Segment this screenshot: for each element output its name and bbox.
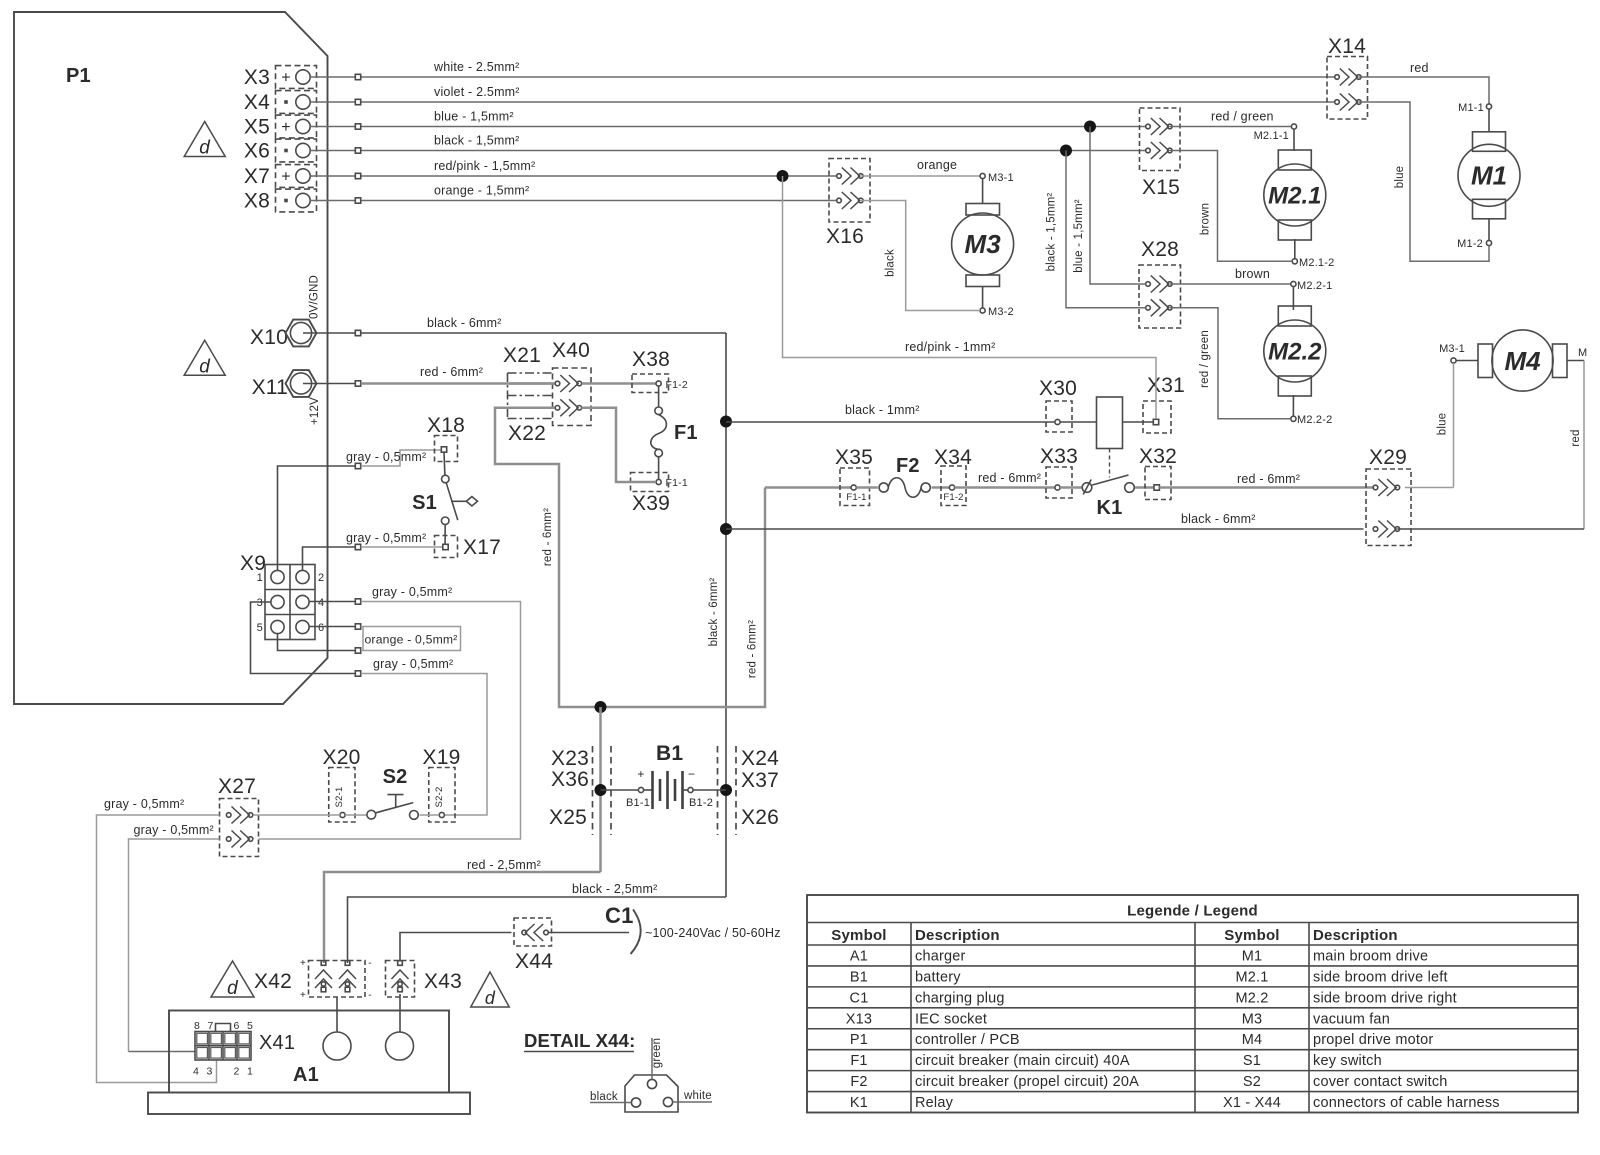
svg-text:black: black [590,1091,618,1103]
svg-text:red - 6mm²: red - 6mm² [747,620,759,678]
svg-text:X22: X22 [508,422,546,445]
svg-text:red: red [1410,61,1429,75]
svg-text:X26: X26 [741,806,779,829]
svg-text:red/pink - 1mm²: red/pink - 1mm² [905,340,996,354]
svg-text:M4: M4 [1242,1032,1263,1048]
svg-text:2: 2 [318,572,324,584]
svg-text:4: 4 [318,597,324,609]
svg-text:battery: battery [915,969,961,985]
svg-text:M4: M4 [1504,346,1541,376]
svg-text:M3-2: M3-2 [988,306,1014,318]
svg-text:B1: B1 [850,969,868,985]
svg-text:X13: X13 [846,1011,872,1027]
svg-text:2: 2 [233,1066,239,1078]
svg-text:brown: brown [1235,267,1270,281]
svg-text:M1-1: M1-1 [1458,102,1484,114]
svg-text:X39: X39 [632,492,670,515]
svg-text:black - 1mm²: black - 1mm² [845,403,920,417]
svg-text:X21: X21 [503,344,541,367]
svg-text:−: − [688,767,695,781]
svg-text:S1: S1 [412,492,437,514]
svg-text:F1-2: F1-2 [943,492,963,503]
svg-text:red - 6mm²: red - 6mm² [978,471,1041,485]
svg-text:X15: X15 [1142,176,1180,199]
svg-text:B1-1: B1-1 [626,797,650,809]
svg-text:gray - 0,5mm²: gray - 0,5mm² [372,585,452,599]
svg-text:red/pink - 1,5mm²: red/pink - 1,5mm² [434,159,535,173]
svg-text:X28: X28 [1141,238,1179,261]
svg-text:vacuum fan: vacuum fan [1313,1011,1390,1027]
svg-text:X37: X37 [741,769,779,792]
svg-text:M: M [1578,347,1587,359]
svg-text:F1-1: F1-1 [846,492,866,503]
svg-text:X6: X6 [244,140,270,163]
svg-text:M2.2-1: M2.2-1 [1297,280,1332,292]
svg-text:X23: X23 [551,747,589,770]
svg-text:X40: X40 [552,339,590,362]
svg-text:black - 6mm²: black - 6mm² [1181,512,1256,526]
svg-text:Description: Description [915,927,1000,944]
svg-text:white - 2.5mm²: white - 2.5mm² [433,60,519,74]
svg-text:5: 5 [247,1020,253,1032]
svg-text:X18: X18 [427,414,465,437]
svg-text:X31: X31 [1147,374,1185,397]
svg-text:DETAIL X44:: DETAIL X44: [524,1030,636,1051]
svg-text:M3: M3 [1242,1011,1263,1027]
svg-text:X41: X41 [259,1032,295,1054]
svg-text:charging plug: charging plug [915,990,1005,1006]
svg-text:Relay: Relay [915,1095,954,1111]
svg-text:Description: Description [1313,927,1398,944]
svg-text:X11: X11 [252,376,288,399]
svg-text:1: 1 [247,1066,253,1078]
svg-text:+: + [281,70,291,87]
svg-text:X33: X33 [1040,445,1078,468]
svg-text:F2: F2 [896,455,920,477]
svg-text:M2.1-1: M2.1-1 [1254,130,1289,142]
svg-text:3: 3 [257,597,263,609]
svg-text:charger: charger [915,948,966,964]
svg-text:A1: A1 [293,1064,319,1086]
svg-text:X20: X20 [323,746,361,769]
svg-text:black - 6mm²: black - 6mm² [708,578,720,647]
svg-text:+12V: +12V [309,397,321,425]
svg-text:M3-1: M3-1 [1439,343,1465,355]
svg-text:X7: X7 [244,165,270,188]
svg-text:F2: F2 [850,1074,867,1090]
svg-text:+: + [300,990,306,1001]
svg-text:6: 6 [233,1020,239,1032]
svg-text:red / green: red / green [1199,330,1211,388]
svg-text:+: + [300,958,306,969]
svg-text:3: 3 [206,1066,212,1078]
svg-text:X3: X3 [244,66,270,89]
svg-text:M3: M3 [965,229,1002,259]
svg-text:X8: X8 [244,190,270,213]
svg-text:circuit breaker (propel circui: circuit breaker (propel circuit) 20A [915,1074,1139,1090]
svg-text:S1: S1 [1243,1053,1261,1069]
svg-text:gray - 0,5mm²: gray - 0,5mm² [373,657,453,671]
svg-text:X44: X44 [515,950,553,973]
svg-text:X42: X42 [254,970,292,993]
svg-text:X43: X43 [424,970,462,993]
svg-text:M2.2: M2.2 [1235,990,1268,1006]
svg-text:Symbol: Symbol [831,927,886,944]
svg-text:black - 2,5mm²: black - 2,5mm² [572,882,657,896]
svg-text:circuit breaker (main circuit): circuit breaker (main circuit) 40A [915,1053,1130,1069]
svg-text:red - 2,5mm²: red - 2,5mm² [467,858,541,872]
svg-text:orange - 1,5mm²: orange - 1,5mm² [434,184,529,198]
svg-text:F1: F1 [850,1053,867,1069]
svg-text:X17: X17 [463,536,501,559]
svg-text:A1: A1 [850,948,868,964]
svg-text:B1-2: B1-2 [689,797,713,809]
svg-text:d: d [199,138,211,159]
svg-text:d: d [199,356,211,377]
svg-text:~100-240Vac / 50-60Hz: ~100-240Vac / 50-60Hz [645,926,781,940]
svg-text:Symbol: Symbol [1224,927,1279,944]
svg-text:B1: B1 [656,742,683,765]
svg-text:M2.1-2: M2.1-2 [1299,257,1334,269]
svg-text:red - 6mm²: red - 6mm² [542,508,554,566]
svg-text:cover contact switch: cover contact switch [1313,1074,1448,1090]
svg-text:white: white [683,1090,712,1102]
svg-text:blue: blue [1437,413,1449,436]
svg-text:side broom drive right: side broom drive right [1313,990,1457,1006]
svg-text:+: + [637,767,644,781]
svg-text:d: d [227,978,239,999]
svg-text:M1: M1 [1471,160,1507,190]
svg-text:red / green: red / green [1211,110,1274,124]
svg-text:X38: X38 [632,348,670,371]
svg-text:C1: C1 [605,903,634,928]
svg-text:P1: P1 [66,65,91,87]
svg-text:S2: S2 [383,766,408,788]
svg-text:P1: P1 [850,1032,868,1048]
svg-text:blue - 1,5mm²: blue - 1,5mm² [1073,199,1085,273]
svg-text:IEC socket: IEC socket [915,1011,987,1027]
svg-text:X1 - X44: X1 - X44 [1223,1095,1281,1111]
svg-text:M1-2: M1-2 [1457,238,1483,250]
svg-text:+: + [281,119,291,136]
svg-text:violet - 2.5mm²: violet - 2.5mm² [434,85,520,99]
svg-text:8: 8 [194,1020,200,1032]
svg-text:X36: X36 [551,768,589,791]
svg-text:X10: X10 [250,326,288,349]
svg-text:blue - 1,5mm²: blue - 1,5mm² [434,110,514,124]
svg-text:X5: X5 [244,116,270,139]
svg-text:d: d [485,988,496,1008]
svg-text:blue: blue [1394,166,1406,189]
svg-text:gray - 0,5mm²: gray - 0,5mm² [346,450,426,464]
svg-text:gray - 0,5mm²: gray - 0,5mm² [134,823,214,837]
svg-text:side broom drive left: side broom drive left [1313,969,1448,985]
svg-text:4: 4 [193,1066,199,1078]
svg-text:5: 5 [257,622,263,634]
svg-text:M2.1: M2.1 [1235,969,1268,985]
svg-text:6: 6 [318,622,324,634]
svg-text:X27: X27 [218,775,256,798]
svg-text:X4: X4 [244,91,270,114]
svg-text:-: - [368,990,372,1001]
svg-text:orange - 0,5mm²: orange - 0,5mm² [364,633,457,647]
svg-text:main broom drive: main broom drive [1313,948,1428,964]
svg-text:X14: X14 [1328,35,1366,58]
svg-text:red - 6mm²: red - 6mm² [420,365,483,379]
svg-text:X25: X25 [549,806,587,829]
svg-text:green: green [651,1038,663,1068]
svg-text:F1: F1 [674,422,698,444]
svg-text:1: 1 [257,572,263,584]
svg-text:K1: K1 [850,1095,868,1111]
svg-text:black - 1,5mm²: black - 1,5mm² [434,134,519,148]
svg-text:X19: X19 [423,746,461,769]
svg-text:M2.2: M2.2 [1268,338,1322,365]
svg-text:X16: X16 [826,225,864,248]
svg-text:X32: X32 [1139,445,1177,468]
svg-text:X34: X34 [934,446,972,469]
svg-text:S2: S2 [1243,1074,1261,1090]
svg-text:+: + [281,169,291,186]
svg-text:X30: X30 [1039,377,1077,400]
svg-text:X24: X24 [741,747,779,770]
svg-text:F1-1: F1-1 [666,477,688,489]
svg-text:K1: K1 [1097,497,1123,519]
svg-text:black - 1,5mm²: black - 1,5mm² [1046,193,1058,272]
svg-text:S2-1: S2-1 [334,787,345,808]
svg-text:propel drive motor: propel drive motor [1313,1032,1433,1048]
svg-text:7: 7 [207,1020,213,1032]
svg-text:orange: orange [917,158,957,172]
svg-text:M3-1: M3-1 [988,172,1014,184]
svg-text:Legende / Legend: Legende / Legend [1127,903,1258,920]
svg-text:X29: X29 [1369,446,1407,469]
svg-text:black - 6mm²: black - 6mm² [427,316,502,330]
svg-text:S2-2: S2-2 [434,787,445,808]
svg-text:red - 6mm²: red - 6mm² [1237,472,1300,486]
svg-text:X35: X35 [835,446,873,469]
svg-text:-: - [368,958,372,969]
svg-text:connectors of cable harness: connectors of cable harness [1313,1095,1500,1111]
svg-text:M2.2-2: M2.2-2 [1297,414,1332,426]
svg-text:black: black [885,249,897,277]
svg-text:gray - 0,5mm²: gray - 0,5mm² [346,531,426,545]
svg-text:0V/GND: 0V/GND [309,275,321,319]
svg-text:C1: C1 [850,990,869,1006]
svg-text:key switch: key switch [1313,1053,1382,1069]
svg-text:M1: M1 [1242,948,1263,964]
svg-text:controller / PCB: controller / PCB [915,1032,1020,1048]
svg-text:brown: brown [1200,203,1212,235]
svg-text:M2.1: M2.1 [1268,182,1321,209]
svg-text:gray - 0,5mm²: gray - 0,5mm² [104,797,184,811]
svg-text:red: red [1570,429,1582,446]
